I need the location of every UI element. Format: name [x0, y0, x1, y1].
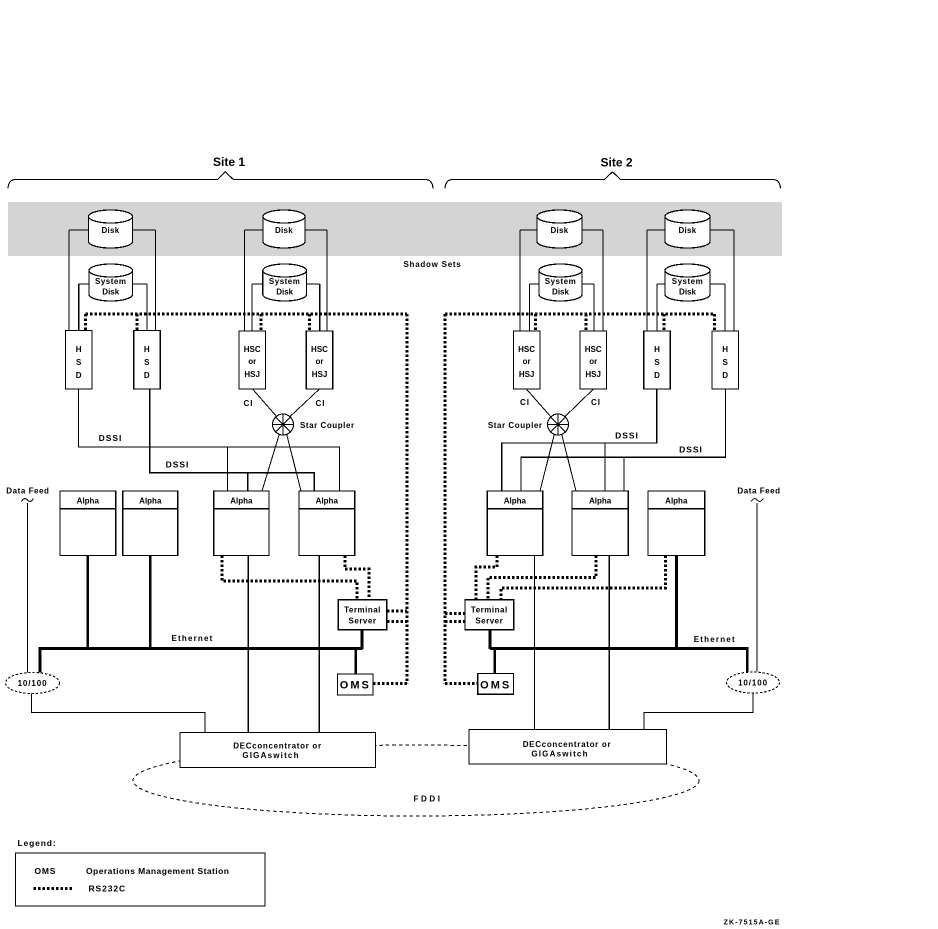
wire Alpha5 drop to DECconcentrator site2 — [534, 556, 536, 730]
svg-text:HSJ: HSJ — [312, 370, 328, 379]
wire disk D2 to HSC controllers — [245, 230, 328, 331]
node OMS site2 — [478, 673, 514, 694]
node 10/100 ellipse left — [6, 673, 60, 694]
wire disk D3 to HSC controllers site2 — [520, 230, 603, 331]
RS232 dotted bus site1 top run — [85, 313, 406, 316]
controller HSD1 site2 — [644, 331, 671, 389]
site 2 brace — [445, 172, 781, 189]
wire Alpha6 drop to DECconcentrator site2 — [608, 556, 610, 730]
FDDI ring — [133, 745, 699, 816]
Ethernet segment site2 — [490, 649, 747, 673]
DSSI bus 1 site2 — [502, 389, 657, 491]
svg-text:Legend:: Legend: — [18, 838, 57, 848]
svg-text:H: H — [76, 345, 82, 354]
svg-text:Alpha: Alpha — [316, 497, 339, 506]
svg-text:Disk: Disk — [678, 226, 696, 235]
svg-text:Ethernet: Ethernet — [171, 634, 213, 643]
svg-text:S: S — [76, 358, 82, 367]
RS232 dotted line to OMS site1 — [373, 682, 407, 685]
svg-text:CI: CI — [591, 398, 601, 407]
RS232 dotted stub Alpha3 to Terminal Server — [222, 556, 357, 600]
controller HSD1 — [66, 331, 93, 390]
wire Terminal Server to Ethernet site1 — [361, 630, 364, 649]
svg-text:OMS: OMS — [480, 679, 511, 691]
data feed line right with break squiggle — [751, 499, 763, 672]
wire Alpha2 drop to Ethernet — [149, 556, 152, 649]
svg-text:or: or — [248, 357, 256, 366]
disk D1 — [89, 210, 133, 248]
svg-text:Site 1: Site 1 — [213, 155, 245, 169]
star coupler site2 — [548, 414, 569, 435]
RS232 dotted stub to HSD1 — [84, 314, 87, 331]
wire system disk SD4 to HSD controllers site2 — [657, 284, 725, 331]
DSSI bus 1 site1 — [79, 389, 340, 491]
wire Ethernet to OMS site1 — [354, 648, 357, 674]
svg-text:System: System — [545, 277, 576, 286]
RS232 dotted stubs to Terminal Server site1 — [387, 611, 407, 622]
wire system disk SD1 to HSD controllers — [79, 284, 147, 331]
RS232 dotted stub to HSC1 — [259, 314, 262, 331]
svg-text:DSSI: DSSI — [99, 433, 123, 443]
svg-text:DSSI: DSSI — [615, 431, 639, 441]
svg-text:HSC: HSC — [518, 345, 535, 354]
svg-text:CI: CI — [316, 399, 326, 408]
DSSI bus 2 site2 — [521, 389, 726, 491]
svg-text:DSSI: DSSI — [166, 460, 190, 470]
svg-text:or: or — [523, 357, 531, 366]
node Alpha4 — [299, 491, 355, 556]
svg-text:H: H — [144, 345, 150, 354]
svg-text:Shadow Sets: Shadow Sets — [403, 260, 461, 269]
wire Alpha3 drop to DECconcentrator — [247, 556, 249, 733]
svg-text:H: H — [722, 345, 728, 354]
svg-text:Operations Management Station: Operations Management Station — [86, 866, 229, 876]
legend RS232 dotted sample — [34, 887, 73, 890]
svg-text:S: S — [144, 358, 150, 367]
svg-text:CI: CI — [520, 398, 530, 407]
svg-text:Alpha: Alpha — [139, 497, 162, 506]
system disk SD1 — [89, 264, 133, 301]
svg-text:System: System — [269, 277, 300, 286]
svg-text:Star Coupler: Star Coupler — [488, 421, 543, 430]
svg-text:H: H — [654, 345, 660, 354]
node Alpha5 site2 — [487, 491, 543, 556]
node 10/100 ellipse right — [727, 672, 780, 693]
data feed line left with break squiggle — [22, 499, 34, 673]
svg-text:HSJ: HSJ — [244, 370, 260, 379]
node Alpha3 — [214, 491, 269, 556]
controller HSC1 site2 — [513, 331, 540, 389]
RS232 dotted vertical site2 — [443, 314, 446, 684]
disk D2 — [263, 210, 305, 248]
shadow-set gray band — [8, 202, 782, 256]
RS232 dotted stub Alpha5 to Terminal Server site2 — [476, 556, 497, 600]
controller HSC2 — [306, 331, 333, 389]
wire CI HSC2 to star coupler — [289, 389, 320, 418]
svg-text:OMS: OMS — [340, 680, 371, 692]
svg-text:System: System — [95, 277, 126, 286]
wire star coupler site2 to Alpha5 — [540, 434, 555, 492]
svg-text:or: or — [589, 357, 597, 366]
svg-text:HSJ: HSJ — [585, 370, 601, 379]
legend box — [16, 853, 266, 906]
RS232 dotted stub to HSD1 site2 — [663, 314, 666, 331]
svg-text:DSSI: DSSI — [679, 445, 703, 455]
wire CI HSC1 site2 to star coupler — [526, 389, 551, 418]
svg-text:Terminal: Terminal — [471, 606, 508, 615]
svg-text:D: D — [76, 371, 82, 380]
RS232 dotted vertical site1 — [405, 314, 408, 684]
svg-text:Disk: Disk — [101, 226, 119, 235]
system disk SD4 — [665, 264, 710, 301]
svg-text:HSJ: HSJ — [519, 370, 535, 379]
star coupler site1 — [273, 414, 294, 435]
node Alpha1 — [60, 491, 116, 556]
svg-text:Star Coupler: Star Coupler — [300, 421, 355, 430]
svg-text:Alpha: Alpha — [230, 497, 253, 506]
svg-text:D: D — [654, 371, 660, 380]
RS232 dotted stub to HSD2 — [135, 314, 138, 331]
wire Alpha7 drop to Ethernet site2 — [675, 556, 678, 649]
wire Ethernet to OMS site2 — [493, 648, 496, 674]
svg-text:Disk: Disk — [102, 288, 119, 297]
svg-text:GIGAswitch: GIGAswitch — [531, 750, 588, 759]
svg-text:System: System — [672, 277, 703, 286]
controller HSC1 — [239, 331, 266, 389]
node OMS site1 — [338, 674, 374, 695]
controller HSD2 site2 — [712, 331, 739, 389]
svg-text:Alpha: Alpha — [77, 497, 100, 506]
controller HSD2 — [134, 331, 161, 390]
svg-text:FDDI: FDDI — [413, 795, 442, 804]
svg-text:Server: Server — [475, 617, 503, 626]
svg-text:DECconcentrator or: DECconcentrator or — [523, 740, 612, 749]
RS232 dotted line to OMS site2 — [445, 682, 478, 685]
node Alpha2 — [123, 491, 178, 556]
svg-text:ZK-7515A-GE: ZK-7515A-GE — [724, 920, 781, 927]
RS232 dotted bus site2 top run — [445, 313, 715, 316]
svg-text:OMS: OMS — [35, 866, 57, 876]
wire CI HSC2 site2 to star coupler — [564, 389, 594, 418]
svg-text:HSC: HSC — [244, 345, 261, 354]
node Alpha6 site2 — [572, 491, 628, 556]
RS232 dotted stub Alpha6 to Terminal Server site2 — [488, 556, 596, 600]
wire system disk SD3 to HSC controllers site2 — [530, 284, 595, 331]
wire disk D4 to HSD controllers site2 — [647, 230, 734, 331]
svg-text:GIGAswitch: GIGAswitch — [242, 751, 299, 760]
node DECconcentrator site1 — [180, 733, 376, 768]
wire disk D1 to HSD controllers — [69, 230, 156, 331]
svg-text:Server: Server — [349, 617, 377, 626]
svg-text:CI: CI — [244, 399, 254, 408]
svg-text:RS232C: RS232C — [89, 884, 127, 894]
RS232 dotted stub to HSD2 site2 — [713, 314, 716, 331]
svg-text:Alpha: Alpha — [504, 497, 527, 506]
disk D4 — [665, 210, 710, 248]
wire 10/100 left to DECconcentrator — [32, 694, 206, 733]
node Terminal Server site2 — [465, 600, 514, 630]
wire system disk SD2 to HSC controllers — [252, 284, 320, 331]
wire Alpha1 drop to Ethernet — [87, 556, 90, 649]
RS232 dotted stub to HSC2 — [308, 314, 311, 331]
wire star coupler to Alpha4 — [287, 434, 302, 492]
node Alpha7 site2 — [648, 491, 705, 556]
wire 10/100 right to DECconcentrator site2 — [644, 693, 753, 730]
svg-text:Site 2: Site 2 — [600, 156, 632, 170]
Ethernet segment site1 — [40, 649, 363, 673]
site 1 brace — [8, 172, 433, 189]
wire star coupler site2 to Alpha6 — [562, 434, 577, 492]
RS232 dotted stub to HSC2 site2 — [585, 314, 588, 331]
node DECconcentrator site2 — [469, 730, 667, 765]
svg-text:Ethernet: Ethernet — [694, 635, 736, 644]
svg-text:Disk: Disk — [276, 288, 293, 297]
svg-text:Disk: Disk — [550, 226, 568, 235]
svg-text:Data Feed: Data Feed — [737, 487, 780, 496]
system disk SD2 — [263, 264, 307, 301]
wire CI HSC1 to star coupler — [253, 389, 278, 418]
RS232 dotted stub Alpha4 to Terminal Server — [345, 556, 369, 600]
controller HSC2 site2 — [580, 331, 607, 389]
wire Alpha4 drop to DECconcentrator — [318, 556, 320, 733]
svg-text:DECconcentrator or: DECconcentrator or — [233, 741, 322, 750]
svg-text:Disk: Disk — [679, 288, 696, 297]
svg-text:HSC: HSC — [585, 345, 602, 354]
svg-text:Disk: Disk — [275, 226, 293, 235]
svg-text:S: S — [654, 358, 660, 367]
svg-text:S: S — [723, 358, 729, 367]
svg-text:Disk: Disk — [552, 288, 569, 297]
svg-text:D: D — [144, 371, 150, 380]
system disk SD3 — [539, 264, 582, 301]
svg-text:Data Feed: Data Feed — [6, 487, 49, 496]
svg-text:HSC: HSC — [311, 345, 328, 354]
svg-text:Terminal: Terminal — [344, 606, 381, 615]
RS232 dotted stub to HSC1 site2 — [534, 314, 537, 331]
wire star coupler to Alpha3 — [262, 434, 280, 492]
RS232 dotted stubs to Terminal Server site2 — [445, 614, 465, 622]
node Terminal Server site1 — [338, 600, 386, 630]
svg-text:10/100: 10/100 — [738, 679, 768, 688]
DSSI bus 2 site1 — [150, 389, 314, 491]
RS232 dotted stub Alpha7 to Terminal Server site2 — [501, 556, 666, 600]
svg-text:10/100: 10/100 — [18, 679, 48, 688]
svg-text:or: or — [316, 357, 324, 366]
svg-text:Alpha: Alpha — [665, 497, 688, 506]
svg-text:D: D — [722, 371, 728, 380]
wire Terminal Server to Ethernet site2 — [489, 630, 492, 649]
svg-text:Alpha: Alpha — [589, 497, 612, 506]
disk D3 — [537, 210, 582, 248]
